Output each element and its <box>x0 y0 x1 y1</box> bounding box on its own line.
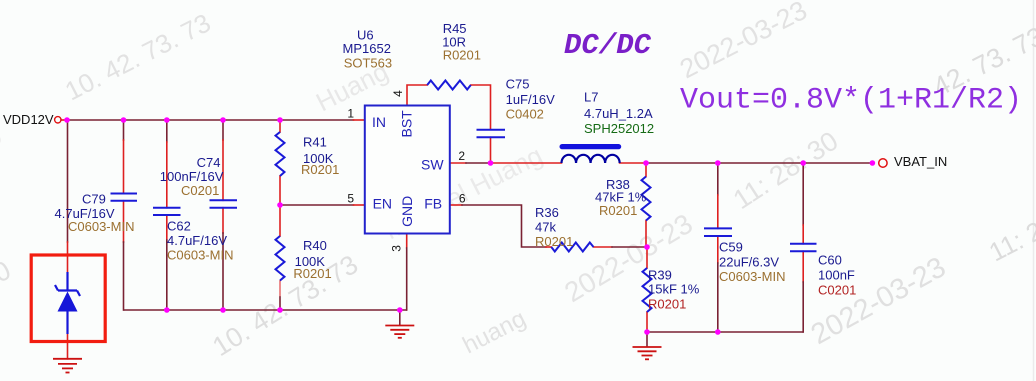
svg-text:4.7uH_1.2A: 4.7uH_1.2A <box>584 106 653 121</box>
svg-text:Vout=0.8V*(1+R1/R2): Vout=0.8V*(1+R1/R2) <box>680 84 1022 118</box>
node C60 top <box>800 160 806 166</box>
TVS diode red box <box>31 255 105 342</box>
wire R41 leads <box>279 120 281 205</box>
svg-text:C0603-MIN: C0603-MIN <box>68 219 134 234</box>
svg-text:VBAT_IN: VBAT_IN <box>894 154 947 169</box>
svg-text:6: 6 <box>459 192 466 206</box>
svg-text:R40: R40 <box>303 238 327 253</box>
wire C60 branch <box>802 163 804 332</box>
svg-text:C0201: C0201 <box>818 282 856 297</box>
node R41 top <box>277 117 283 123</box>
wire U6 GND pin3 <box>406 234 408 311</box>
port VBAT_IN <box>879 159 887 167</box>
resistor R41 <box>276 132 285 176</box>
wire BST to R45 to C75 <box>407 85 491 163</box>
svg-text:R0201: R0201 <box>301 162 339 177</box>
node VBAT port junction <box>870 160 876 166</box>
wire C62 branch <box>166 120 168 310</box>
svg-text:C0201: C0201 <box>181 183 219 198</box>
node C59 top <box>715 160 721 166</box>
capacitor C62 <box>153 208 181 215</box>
svg-text:C62: C62 <box>167 219 191 234</box>
node C62 top <box>164 117 170 123</box>
svg-text:47k: 47k <box>535 220 556 235</box>
wire R40 leads <box>279 205 281 310</box>
node C74 top <box>220 117 226 123</box>
wire diode branch <box>67 120 69 359</box>
wire VDD12V main horizontal net <box>61 119 365 121</box>
node SW C75 junction <box>488 160 494 166</box>
svg-text:1uF/16V: 1uF/16V <box>506 92 555 107</box>
wire VBAT output net <box>620 162 873 164</box>
node C79 top <box>121 117 127 123</box>
wire SW net <box>450 162 562 164</box>
inductor L7 <box>560 144 622 163</box>
resistor R40 <box>276 236 285 281</box>
resistor R36 <box>551 243 593 252</box>
op-amp U6 MP1652 body <box>365 106 450 234</box>
svg-text:EN: EN <box>373 196 392 212</box>
wire ground bus right <box>647 331 803 333</box>
svg-text:VDD12V: VDD12V <box>3 112 54 127</box>
node EN junction <box>277 202 283 208</box>
wire FB net <box>450 205 647 247</box>
svg-text:4: 4 <box>391 90 405 97</box>
sheet edge line <box>1033 0 1035 381</box>
svg-text:1: 1 <box>347 106 354 120</box>
resistor R39 <box>643 268 652 312</box>
capacitor C60 <box>790 244 817 251</box>
svg-text:R0201: R0201 <box>293 266 331 281</box>
wire R38 leads <box>645 163 647 247</box>
ground symbol diode <box>53 359 82 373</box>
ground symbol U6 <box>385 310 414 338</box>
svg-text:SW: SW <box>421 156 444 172</box>
svg-text:L7: L7 <box>584 89 598 104</box>
ground symbol R39 <box>633 332 662 359</box>
node VBAT R38 tap <box>643 160 649 166</box>
port VDD12V <box>55 117 61 123</box>
svg-text:R0201: R0201 <box>648 296 686 311</box>
svg-text:C75: C75 <box>506 77 530 92</box>
svg-text:C0603-MIN: C0603-MIN <box>167 247 233 262</box>
node GND bus junction <box>397 307 403 313</box>
wire C74 branch <box>222 120 224 310</box>
svg-text:DC/DC: DC/DC <box>564 29 652 62</box>
svg-text:5: 5 <box>347 191 354 205</box>
svg-text:SPH252012: SPH252012 <box>584 121 654 136</box>
svg-text:R0201: R0201 <box>599 203 637 218</box>
svg-text:R36: R36 <box>535 205 559 220</box>
capacitor C75 <box>477 130 506 138</box>
svg-text:2: 2 <box>458 149 465 163</box>
capacitor C79 <box>111 194 138 201</box>
wire C59 branch <box>717 163 719 332</box>
svg-text:C59: C59 <box>719 239 743 254</box>
svg-text:100nF: 100nF <box>818 268 855 283</box>
resistor R45 <box>427 81 471 90</box>
svg-text:MP1652: MP1652 <box>343 41 391 56</box>
svg-text:FB: FB <box>424 196 442 212</box>
svg-text:C0402: C0402 <box>506 106 544 121</box>
wire R39 leads <box>646 247 648 332</box>
svg-text:22uF/6.3V: 22uF/6.3V <box>719 255 779 270</box>
capacitor C59 <box>704 228 732 236</box>
node VDD12V diode tap <box>64 117 70 123</box>
zener diode D <box>55 272 80 334</box>
svg-text:15kF 1%: 15kF 1% <box>648 282 700 297</box>
svg-text:GND: GND <box>399 196 415 227</box>
svg-text:R39: R39 <box>648 267 672 282</box>
resistor R38 <box>642 177 651 221</box>
svg-text:4.7uF/16V: 4.7uF/16V <box>167 233 227 248</box>
svg-text:BST: BST <box>399 110 415 138</box>
svg-text:R41: R41 <box>303 135 327 150</box>
svg-text:IN: IN <box>372 114 386 130</box>
node C62 bottom <box>164 307 170 313</box>
node FB junction <box>644 244 650 250</box>
node R39 bottom <box>644 329 650 335</box>
svg-text:SOT563: SOT563 <box>344 55 392 70</box>
node R40 bottom <box>277 307 283 313</box>
svg-text:C0603-MIN: C0603-MIN <box>719 269 785 284</box>
node C74 bottom <box>220 307 226 313</box>
svg-text:R0201: R0201 <box>443 47 481 62</box>
node C59 bottom <box>715 329 721 335</box>
wire C79 branch <box>123 120 125 310</box>
svg-text:3: 3 <box>390 245 404 252</box>
svg-text:C79: C79 <box>82 192 106 207</box>
wire ground bus left <box>124 309 407 311</box>
svg-text:100nF/16V: 100nF/16V <box>160 169 224 184</box>
capacitor C74 <box>210 200 238 207</box>
svg-text:R0201: R0201 <box>535 234 573 249</box>
svg-text:C60: C60 <box>818 252 842 267</box>
wire EN net <box>280 204 365 206</box>
